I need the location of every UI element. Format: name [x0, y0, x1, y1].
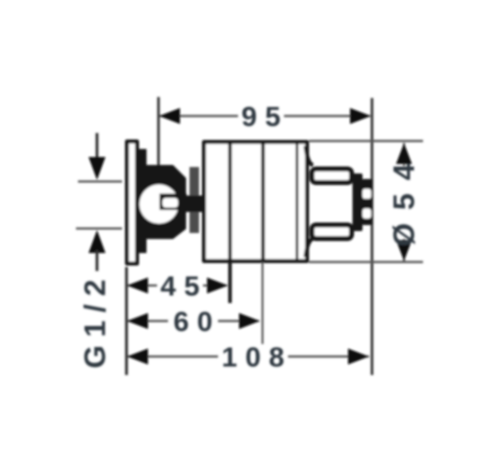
- svg-text:45: 45: [160, 271, 207, 302]
- spline notch lower: [363, 209, 372, 219]
- feature line / 45 extension through body: [228, 142, 232, 303]
- spindle key tab: [160, 194, 187, 211]
- spline notch upper: [363, 189, 372, 199]
- G1/2 pointer top: [96, 133, 99, 160]
- svg-text:108: 108: [222, 342, 293, 373]
- arrow d54 down: [396, 240, 412, 261]
- spindle slot: [163, 198, 179, 208]
- end cap core: [353, 174, 363, 232]
- dimension 108 line: [127, 355, 218, 357]
- diameter 54 dim line stubs: [403, 143, 405, 166]
- arrow 60 right: [239, 313, 260, 329]
- arrow 95 left: [159, 108, 180, 124]
- main cylinder body: [204, 142, 307, 261]
- svg-text:60: 60: [173, 306, 220, 337]
- arrow 108 right: [348, 349, 369, 365]
- G1/2 extension line upper: [78, 180, 122, 182]
- wire: extension line right of 95/108 dims: [371, 98, 374, 375]
- grey seal ring: [190, 167, 200, 233]
- dimension 95 line: [160, 115, 238, 117]
- valve body (black blob): [136, 165, 186, 239]
- neck bottom bar: [312, 225, 352, 239]
- spline block: [362, 179, 373, 225]
- pipe stub top (behind plate): [139, 149, 147, 169]
- arrow 45 right: [207, 278, 228, 294]
- svg-text:G1/2: G1/2: [79, 271, 112, 368]
- feature line right band: [296, 142, 299, 261]
- pipe stub bottom (behind plate): [139, 234, 147, 253]
- neck top bar: [312, 169, 352, 183]
- arrow 45 left: [127, 278, 148, 294]
- diameter 54 extension line bottom: [309, 261, 423, 263]
- feature line / 60 extension through body: [261, 142, 265, 262]
- arrow 108 left: [127, 349, 148, 365]
- dimension 45 line: [127, 284, 157, 286]
- neck bottom bar tail fillet: [306, 239, 314, 258]
- coupling tab: [184, 196, 205, 213]
- dimension 60 line: [127, 320, 168, 322]
- wire: extension line at wall plate (left, bottom dims): [125, 267, 128, 375]
- arrow 95 right: [350, 108, 371, 124]
- valve bore (white circle): [139, 184, 178, 223]
- diameter 54 extension line top: [309, 140, 423, 142]
- G1/2 pointer bottom: [89, 230, 106, 253]
- neck top bar tail fillet: [306, 146, 314, 165]
- wire: extension line left of 95 dim (valve centre): [157, 97, 160, 168]
- arrow d54 up: [396, 143, 412, 164]
- wall plate (escutcheon): [127, 142, 137, 264]
- arrow 60 left: [127, 313, 148, 329]
- svg-text:Ø54: Ø54: [388, 151, 421, 247]
- svg-text:95: 95: [241, 101, 288, 132]
- G1/2 extension line lower: [76, 227, 122, 229]
